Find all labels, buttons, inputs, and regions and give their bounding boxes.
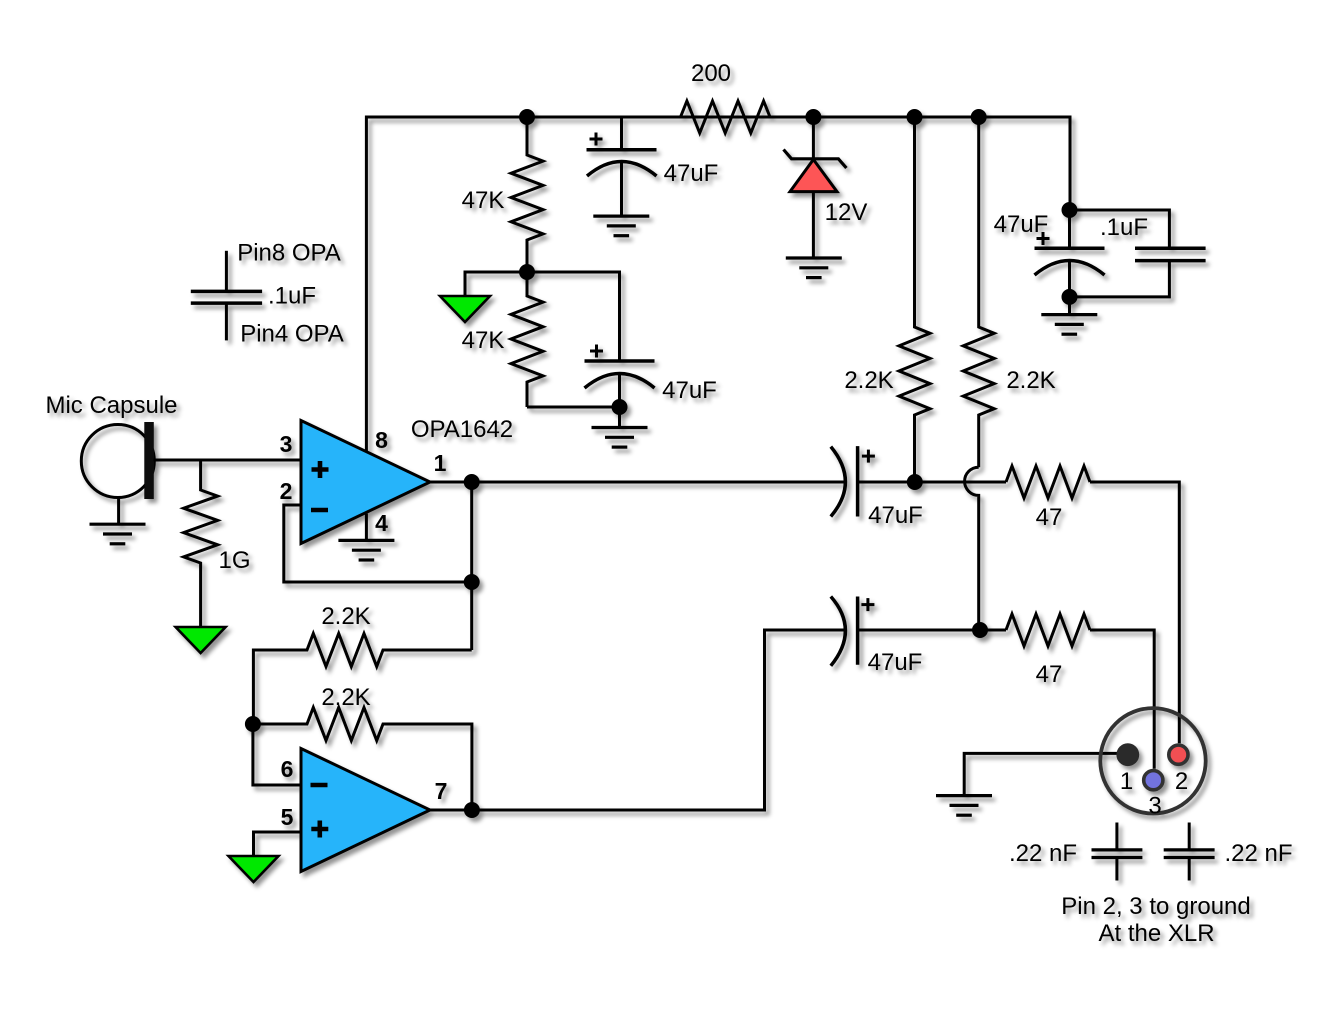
svg-text:2.2K: 2.2K <box>1006 367 1055 394</box>
capacitor C5 polarity + <box>862 450 875 463</box>
resistor 2.2K right (output bias) <box>963 117 994 467</box>
resistor 47K lower zigzag <box>511 272 543 407</box>
capacitor C8 .22nF right lead top <box>1188 823 1191 850</box>
capacitor C1 bottom lead <box>620 162 623 217</box>
resistor 47K upper zigzag <box>511 117 543 272</box>
ground under C3 <box>1041 315 1097 335</box>
svg-text:7: 7 <box>435 778 448 804</box>
op-amp U2 OPA1642 triangle <box>301 749 430 872</box>
wire hop: right 2.2K crosses row1 <box>965 467 979 630</box>
wire: junction to U2 pin6 <box>253 724 301 785</box>
ground under C1 <box>593 216 649 236</box>
capacitor C3 47uF lead <box>1068 210 1071 248</box>
capacitor C4 .1uF plates <box>1135 247 1206 251</box>
svg-text:2: 2 <box>280 478 293 504</box>
svg-text:47uF: 47uF <box>868 502 923 529</box>
capacitor C2 polarity + <box>590 345 603 358</box>
junction rail/2.2K right <box>971 109 987 125</box>
svg-text:2: 2 <box>1175 768 1188 795</box>
zener diode D1 12V cathode bar <box>784 150 847 169</box>
svg-text:3: 3 <box>280 431 293 457</box>
junction rail/47K <box>519 109 535 125</box>
capacitor C8 plates <box>1164 848 1215 851</box>
mic capsule ground stem <box>117 498 120 524</box>
capacitor C5 47uF coupling row1 curved plate <box>831 447 846 517</box>
wire: XLR pin1 to ground <box>964 753 1128 795</box>
svg-text:.1uF: .1uF <box>268 283 316 310</box>
resistor 200 (series supply) leads <box>770 116 1070 119</box>
wire: row1 to XLR pin2 <box>1090 482 1179 743</box>
resistor 47 row2 zigzag <box>1006 614 1090 646</box>
wire: U1 output to coupling cap row1 <box>430 481 846 484</box>
svg-text:Pin4 OPA: Pin4 OPA <box>240 321 344 348</box>
svg-text:47: 47 <box>1036 661 1063 688</box>
wire: mic capsule to op-amp pin3 <box>154 459 301 462</box>
capacitor C3 47uF plates <box>1035 247 1105 251</box>
XLR pin 2 (red) <box>1169 745 1188 764</box>
junction row1 bias node <box>907 474 923 490</box>
svg-text:12V: 12V <box>825 199 868 226</box>
ground under C2 <box>592 428 648 448</box>
capacitor C3 polarity + <box>1037 232 1050 245</box>
wire: U1 output down to feedback node <box>470 482 473 650</box>
svg-text:47: 47 <box>1036 504 1063 531</box>
svg-text:47uF: 47uF <box>662 377 717 404</box>
capacitor C9 bottom lead <box>225 303 228 340</box>
svg-text:1G: 1G <box>218 547 250 574</box>
svg-text:200: 200 <box>691 60 731 87</box>
capacitor C1 47uF plates <box>587 148 657 152</box>
op-amp U2 + input marker <box>311 821 328 838</box>
zener diode D1 12V anode triangle <box>790 160 837 192</box>
junction top-right V+ node <box>1062 202 1078 218</box>
resistor 47 row1 zigzag <box>1006 466 1090 498</box>
resistor 2.2K feedback upper <box>253 634 471 725</box>
junction C3 bottom / ground node <box>1062 289 1078 305</box>
svg-text:3: 3 <box>1148 793 1161 820</box>
svg-text:5: 5 <box>281 804 294 830</box>
wire: rail to zener <box>812 117 815 159</box>
svg-text:Pin8 OPA: Pin8 OPA <box>237 240 341 267</box>
wire: 47K junction right to 47uF bias cap <box>527 272 620 361</box>
capacitor C7 .22nF left lead top <box>1115 823 1118 850</box>
svg-text:6: 6 <box>281 756 294 782</box>
svg-text:OPA1642: OPA1642 <box>411 416 513 443</box>
op-amp U2 - input marker <box>311 783 328 788</box>
capacitor C2 bottom lead <box>618 373 621 407</box>
capacitor C1 47uF (supply filter) top lead <box>620 117 623 150</box>
ground under zener <box>786 258 842 278</box>
ground (green) at U2 pin5 <box>229 856 279 882</box>
svg-text:2.2K: 2.2K <box>321 603 370 630</box>
ground stem under C3 junction <box>1068 297 1071 315</box>
wire: op-amp U1 pin4 to ground <box>365 514 368 541</box>
svg-text:47K: 47K <box>462 187 505 214</box>
XLR pin 3 (blue) <box>1144 771 1163 790</box>
svg-text:4: 4 <box>375 510 388 536</box>
ground (green) at 47K divider <box>440 296 490 322</box>
resistor 2.2K left (output bias) <box>899 117 930 482</box>
svg-text:8: 8 <box>375 427 388 453</box>
ground stem under C2 junction <box>618 407 621 428</box>
junction U1 output <box>464 474 480 490</box>
wire: top-right corner down-right branch to .1uF <box>1070 210 1169 248</box>
ground under mic capsule <box>90 524 146 544</box>
junction U2 output <box>464 802 480 818</box>
op-amp U1 + input marker <box>312 461 329 478</box>
svg-text:.22 nF: .22 nF <box>1009 840 1077 867</box>
capacitor C8 lead bottom <box>1188 858 1191 881</box>
capacitor C5 flat plate <box>856 446 860 516</box>
resistor 1G (bias) zigzag <box>184 460 218 627</box>
svg-text:47uF: 47uF <box>994 211 1049 238</box>
capacitor C7 lead bottom <box>1115 858 1118 881</box>
ground under U1 pin4 <box>338 540 394 560</box>
junction C2/47K bottom <box>612 399 628 415</box>
XLR pin 1 (black) <box>1116 743 1139 766</box>
svg-text:2.2K: 2.2K <box>321 684 370 711</box>
svg-text:47K: 47K <box>462 327 505 354</box>
op-amp U1 OPA1642 triangle <box>301 421 430 544</box>
wire: 47K bottom to bias cap junction <box>527 406 620 409</box>
junction feedback node <box>464 574 480 590</box>
svg-text:At the XLR: At the XLR <box>1098 920 1214 947</box>
wire: C5 to 47 resistor row1 <box>858 481 1006 484</box>
XLR connector shell circle <box>1100 708 1205 813</box>
mic capsule circle <box>81 425 154 498</box>
junction rail/2.2K left <box>907 109 923 125</box>
wire: U2 output to row2 <box>430 630 846 810</box>
mic capsule diaphragm bar <box>144 422 154 499</box>
svg-text:1: 1 <box>434 450 447 476</box>
wire: .1uF bottom return to junction <box>1070 261 1169 297</box>
wire: row2 to XLR pin3 <box>1090 630 1154 769</box>
wire: C6 to 47 resistor row2 <box>858 629 1006 632</box>
capacitor C7 plates <box>1092 848 1143 851</box>
svg-text:.1uF: .1uF <box>1100 214 1148 241</box>
resistor 2.2K feedback lower <box>253 708 472 811</box>
wire: U2 pin5 to green ground <box>254 832 302 856</box>
wire: 47K junction to green ground arm <box>465 272 527 296</box>
zener lead to ground <box>812 192 815 258</box>
svg-text:2.2K: 2.2K <box>844 367 893 394</box>
svg-text:1: 1 <box>1120 768 1133 795</box>
capacitor C3 bottom lead <box>1068 261 1071 297</box>
svg-text:.22 nF: .22 nF <box>1224 840 1292 867</box>
resistor 200 zigzag <box>681 101 771 133</box>
ground at XLR pin1 <box>936 796 992 816</box>
op-amp U1 - input marker <box>311 508 328 513</box>
ground (green) under 1G <box>176 627 226 653</box>
junction rail/zener <box>805 109 821 125</box>
capacitor C2 47uF (bias decouple) plates <box>585 359 655 363</box>
wire: V+ top rail from op-amp pin8 riser to top-right corner <box>366 117 1070 453</box>
svg-text:47uF: 47uF <box>664 160 719 187</box>
junction row2 bias node <box>972 622 988 638</box>
svg-text:Pin 2, 3 to ground: Pin 2, 3 to ground <box>1061 893 1250 920</box>
svg-text:Mic Capsule: Mic Capsule <box>45 392 177 419</box>
junction 47K divider <box>519 264 535 280</box>
capacitor C6 polarity + <box>861 598 874 611</box>
capacitor C9 plates <box>191 290 262 294</box>
capacitor C6 47uF coupling row2 curved plate <box>831 597 846 666</box>
junction feedback node U2 <box>245 716 261 732</box>
capacitor C9 .1uF (supply bypass note) top lead <box>225 251 228 292</box>
wire: feedback to U1 pin2 <box>284 505 472 582</box>
capacitor C1 polarity + <box>590 133 603 146</box>
capacitor C6 flat plate <box>856 597 860 665</box>
svg-text:47uF: 47uF <box>868 649 923 676</box>
